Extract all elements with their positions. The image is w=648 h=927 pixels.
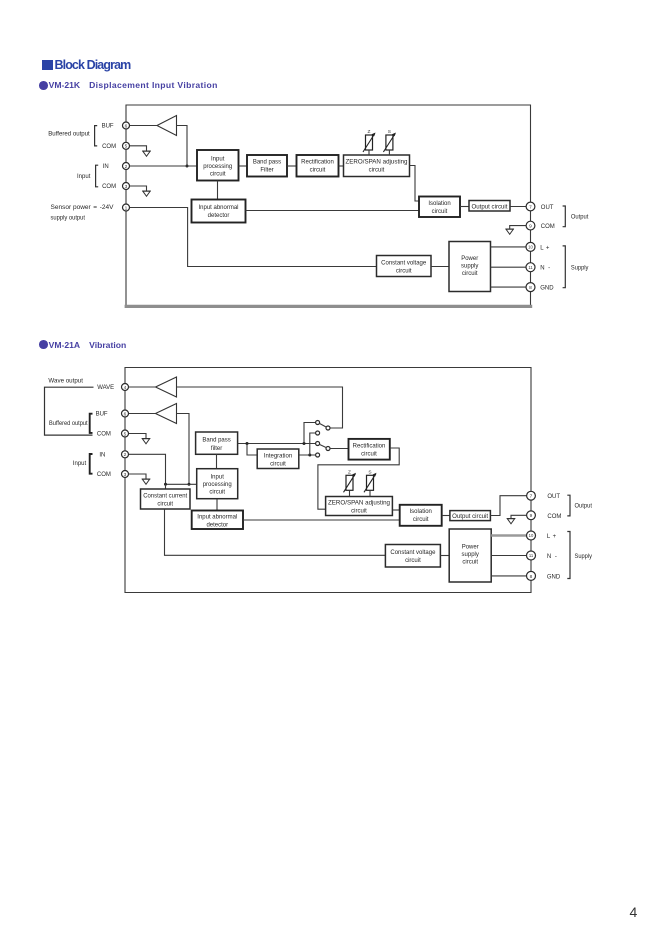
svg-text:ZERO/SPAN adjusting: ZERO/SPAN adjusting <box>328 501 390 507</box>
label N- <box>540 266 550 272</box>
box input abnormal detector <box>192 200 246 223</box>
svg-text:Z: Z <box>368 129 371 135</box>
potentiometer Z <box>363 129 376 155</box>
svg-text:9: 9 <box>530 513 533 519</box>
svg-text:Output circuit: Output circuit <box>472 204 508 210</box>
svg-text:WAVE: WAVE <box>97 385 114 391</box>
svg-text:Wave output: Wave output <box>48 379 83 385</box>
bracket buffered output <box>95 126 98 146</box>
wire op-amp U3 input from IN line <box>177 414 190 485</box>
svg-text:Input: Input <box>211 475 225 481</box>
label L+ <box>540 245 550 251</box>
svg-text:Input abnormal: Input abnormal <box>198 205 238 211</box>
wire power supply to terminal10 <box>491 246 531 248</box>
label Supply <box>571 266 589 272</box>
svg-text:COM: COM <box>97 472 111 478</box>
svg-text:Filter: Filter <box>260 168 273 174</box>
svg-text:L +: L + <box>547 534 557 540</box>
box isolation circuit (2) <box>400 505 442 526</box>
svg-text:Constant voltage: Constant voltage <box>381 260 427 266</box>
svg-text:11: 11 <box>528 265 533 270</box>
VM-21K enclosure bottom edge (thick gray) <box>125 305 533 308</box>
label OUT <box>541 205 554 211</box>
label GND <box>540 286 554 292</box>
box input abnormal detector (2) <box>192 511 243 530</box>
svg-text:GND: GND <box>547 574 561 580</box>
svg-text:10: 10 <box>528 245 533 250</box>
svg-text:Constant current: Constant current <box>143 494 187 500</box>
box constant voltage circuit <box>377 256 432 277</box>
svg-text:Supply: Supply <box>575 554 593 560</box>
label COM (pin5) <box>102 144 116 150</box>
bracket supply group <box>563 246 566 288</box>
svg-text:Rectification: Rectification <box>353 443 386 449</box>
svg-text:4: 4 <box>124 385 127 391</box>
svg-text:processing: processing <box>203 164 232 170</box>
svg-text:circuit: circuit <box>405 558 421 564</box>
terminal 10 (2) <box>527 531 536 540</box>
label COM (pin9, 2) <box>547 514 561 520</box>
svg-text:N -: N - <box>540 266 550 272</box>
box output circuit (2) <box>450 511 491 521</box>
svg-text:Buffered output: Buffered output <box>48 132 90 138</box>
svg-text:OUT: OUT <box>547 494 560 500</box>
label Output <box>571 214 589 220</box>
svg-text:processing: processing <box>203 482 232 488</box>
wire zero/span to isolation <box>410 166 420 202</box>
wire zero/span to isolation (2) <box>392 509 399 511</box>
junction to switch contact 1 <box>303 442 306 445</box>
svg-text:Input: Input <box>77 174 91 180</box>
svg-text:Z: Z <box>348 470 351 476</box>
ground symbol (pin3, 2) <box>142 479 151 484</box>
box input processing circuit <box>197 150 239 181</box>
box output circuit <box>469 201 510 212</box>
wire terminal9 to ground (2) <box>511 515 527 518</box>
terminal 3 <box>123 183 130 190</box>
label L+ (2) <box>547 534 557 540</box>
svg-text:circuit: circuit <box>351 508 367 514</box>
svg-text:8: 8 <box>530 574 533 580</box>
box constant current circuit <box>141 489 191 509</box>
potentiometer Z (2) <box>344 470 357 497</box>
svg-text:7: 7 <box>530 494 533 500</box>
subtitle VM-21A <box>39 340 126 350</box>
ground symbol (pin5, 2) <box>142 439 151 444</box>
wire op-amp U2 input from switch pole 1 <box>177 387 343 428</box>
box zero/span adjusting circuit (2) <box>326 497 393 516</box>
svg-text:1: 1 <box>125 205 128 211</box>
wire power supply to terminal11 <box>491 266 531 268</box>
subtitle VM-21K <box>39 80 218 90</box>
svg-text:COM: COM <box>102 184 116 190</box>
wire band pass filter output to switch contact 3 <box>238 443 316 445</box>
svg-text:S: S <box>388 129 391 135</box>
svg-text:circuit: circuit <box>413 517 429 523</box>
svg-text:BUF: BUF <box>102 124 114 130</box>
label COM (pin3, 2) <box>97 472 111 478</box>
svg-text:3: 3 <box>124 472 127 478</box>
label BUF <box>102 124 114 130</box>
label Sensor power supply output <box>51 205 114 221</box>
svg-text:IN: IN <box>103 164 109 170</box>
wire to switch contact 2 <box>310 433 316 455</box>
svg-text:Isolation: Isolation <box>428 201 450 207</box>
switch pole 2 <box>326 447 330 451</box>
svg-text:detector: detector <box>206 522 228 528</box>
bracket buffered output (2) <box>90 414 93 433</box>
svg-text:COM: COM <box>102 144 116 150</box>
wire power supply to terminal8 <box>491 286 531 288</box>
svg-text:ZERO/SPAN adjusting: ZERO/SPAN adjusting <box>346 160 408 166</box>
potentiometer S (2) <box>364 470 377 497</box>
VM-21K enclosure frame <box>126 105 531 306</box>
wire constant voltage to power supply (2) <box>440 555 449 557</box>
wire terminal3 to ground (2) <box>128 474 146 479</box>
svg-text:circuit: circuit <box>209 490 225 496</box>
svg-text:10: 10 <box>529 533 534 538</box>
svg-text:Power: Power <box>462 545 479 551</box>
terminal 7 (2) <box>527 491 536 500</box>
wire switch pole 2 to rectification <box>330 448 349 450</box>
box band pass filter <box>247 155 287 177</box>
wire detector to isolation (2) <box>243 519 400 521</box>
ground symbol (pin3) <box>142 191 151 196</box>
terminal 8 (2) <box>527 571 536 580</box>
label N- (2) <box>547 554 557 560</box>
wire rectification to zero/span <box>339 165 344 167</box>
svg-text:Buffered output: Buffered output <box>49 421 88 427</box>
wire isolation to output circuit (2) <box>442 515 450 517</box>
label COM (pin3) <box>102 184 116 190</box>
wire terminal2 (IN) to input processing <box>129 165 197 167</box>
svg-text:Output: Output <box>575 504 593 510</box>
terminal 5 <box>123 142 130 149</box>
label Buffered output <box>48 132 90 138</box>
wire op-amp input from IN line <box>177 126 188 167</box>
wave output pointer lines <box>45 387 94 435</box>
page number <box>630 904 638 920</box>
svg-text:circuit: circuit <box>157 502 173 508</box>
svg-text:supply output: supply output <box>51 215 86 221</box>
label Wave output <box>48 379 83 385</box>
label GND (2) <box>547 574 561 580</box>
svg-text:6: 6 <box>125 123 128 129</box>
label Input (2) <box>73 461 87 467</box>
op-amp buffer U1 <box>157 116 177 136</box>
svg-text:2: 2 <box>124 452 127 458</box>
switch contact 1 <box>316 421 320 425</box>
svg-text:Integration: Integration <box>264 453 292 459</box>
label Output (2) <box>575 504 593 510</box>
terminal 2 <box>123 163 130 170</box>
wire terminal6 to op-amp <box>129 125 157 127</box>
svg-text:Input: Input <box>211 157 225 163</box>
ground symbol (pin9, 2) <box>507 519 516 524</box>
wire constant current to constant voltage rail <box>165 509 386 555</box>
svg-text:circuit: circuit <box>432 209 448 215</box>
svg-text:circuit: circuit <box>270 461 286 467</box>
wire detector to isolation circuit <box>246 210 420 212</box>
svg-text:supply: supply <box>461 264 478 270</box>
svg-text:circuit: circuit <box>396 268 412 274</box>
label IN (2) <box>99 453 105 459</box>
svg-text:Power: Power <box>461 256 478 262</box>
wire power supply to terminal11 (2) <box>491 555 531 557</box>
switch lever 2 <box>319 444 326 447</box>
box isolation circuit <box>419 197 460 218</box>
svg-text:7: 7 <box>529 204 532 210</box>
wire terminal1 (-24V) to constant voltage circuit <box>129 208 376 267</box>
wire constant voltage to power supply <box>431 266 449 268</box>
terminal 9 <box>526 221 535 230</box>
wire junction to integration circuit <box>247 444 257 456</box>
svg-text:circuit: circuit <box>369 168 385 174</box>
box rectification circuit <box>297 155 339 177</box>
box power supply circuit (2) <box>449 529 491 582</box>
terminal 11 <box>526 263 535 272</box>
terminal 8 <box>526 283 535 292</box>
junction band pass output <box>246 442 249 445</box>
bracket input <box>96 165 99 187</box>
terminal 5 (2) <box>122 430 129 437</box>
svg-text:Supply: Supply <box>571 266 589 272</box>
svg-text:Isolation: Isolation <box>410 509 432 515</box>
wire junction to constant current circuit <box>165 484 167 489</box>
bracket output group (2) <box>567 495 570 516</box>
switch contact 4 <box>316 453 320 457</box>
wire terminal6 to op-amp U3 <box>128 413 155 415</box>
svg-text:OUT: OUT <box>541 205 554 211</box>
svg-text:Constant voltage: Constant voltage <box>390 550 436 556</box>
label IN <box>103 164 109 170</box>
svg-text:COM: COM <box>97 432 111 438</box>
wire to switch contact 1 <box>304 423 316 444</box>
junction on IN feed line <box>188 483 191 486</box>
svg-text:6: 6 <box>124 411 127 417</box>
svg-text:IN: IN <box>99 453 105 459</box>
label Input <box>77 174 91 180</box>
wire terminal9 to ground <box>510 226 527 229</box>
VM-21A enclosure frame <box>125 368 531 593</box>
svg-text:2: 2 <box>125 164 128 170</box>
svg-text:COM: COM <box>547 514 561 520</box>
wire rectification to zero/span (2) <box>318 448 399 509</box>
svg-text:9: 9 <box>529 224 532 230</box>
svg-text:circuit: circuit <box>462 560 478 566</box>
bracket input (2) <box>90 454 93 474</box>
box constant voltage circuit (2) <box>385 545 440 568</box>
svg-text:N -: N - <box>547 554 557 560</box>
junction IN to constant current <box>164 483 167 486</box>
svg-text:COM: COM <box>541 224 555 230</box>
svg-text:11: 11 <box>529 553 534 558</box>
terminal 10 <box>526 242 535 251</box>
heading: Block Diagram <box>42 58 130 72</box>
svg-text:GND: GND <box>540 286 554 292</box>
label OUT (2) <box>547 494 560 500</box>
svg-text:S: S <box>368 470 371 476</box>
svg-text:Band pass: Band pass <box>253 160 281 166</box>
box rectification circuit (2) <box>349 439 390 460</box>
svg-text:circuit: circuit <box>361 451 377 457</box>
svg-text:circuit: circuit <box>462 271 478 277</box>
svg-text:Band pass: Band pass <box>202 437 230 443</box>
switch contact 3 <box>316 442 320 446</box>
wire terminal3 to ground <box>129 186 146 191</box>
box power supply circuit <box>449 242 491 292</box>
terminal 6 (2) <box>122 410 129 417</box>
ground symbol (pin5) <box>142 151 151 156</box>
wire terminal4 to op-amp U2 <box>128 386 155 388</box>
svg-text:3: 3 <box>125 184 128 190</box>
terminal 1 <box>123 204 130 211</box>
wire power supply to terminal10 (thick) <box>491 534 527 537</box>
svg-text:Output: Output <box>571 214 589 220</box>
junction integration output <box>308 454 311 457</box>
svg-text:BUF: BUF <box>96 412 108 418</box>
wire input processing to band pass filter <box>239 165 248 167</box>
potentiometer S <box>383 129 396 155</box>
label COM (pin9) <box>541 224 555 230</box>
bracket supply group (2) <box>567 532 570 579</box>
svg-text:filter: filter <box>211 446 222 452</box>
wire output circuit to terminal7 <box>510 206 531 208</box>
terminal 9 (2) <box>527 511 536 520</box>
svg-text:supply: supply <box>462 552 479 558</box>
label Supply (2) <box>575 554 593 560</box>
label BUF (2) <box>96 412 108 418</box>
box band pass filter (2) <box>196 432 238 454</box>
wire power supply to terminal8 (2) <box>491 575 531 577</box>
label Buffered output (2) <box>49 421 88 427</box>
terminal 3 (2) <box>122 471 129 478</box>
svg-text:Sensor power = -24V: Sensor power = -24V <box>51 205 114 211</box>
svg-text:Input abnormal: Input abnormal <box>197 515 237 521</box>
wire integration output to switch contact 4 <box>299 454 316 456</box>
terminal 11 (2) <box>527 551 536 560</box>
terminal 6 <box>123 122 130 129</box>
terminal 4 <box>122 384 129 391</box>
label COM (pin5, 2) <box>97 432 111 438</box>
wire terminal5 to ground (2) <box>128 434 146 439</box>
terminal 2 (2) <box>122 451 129 458</box>
svg-text:Rectification: Rectification <box>301 160 334 166</box>
box integration circuit <box>257 449 299 469</box>
svg-text:5: 5 <box>125 144 128 150</box>
wire band pass to input processing (2) <box>216 454 218 468</box>
wire terminal2 (IN) to input processing (2) <box>128 454 196 484</box>
wire output circuit to terminal7 (2) <box>490 496 531 516</box>
svg-text:circuit: circuit <box>310 168 326 174</box>
wire isolation to output circuit <box>460 206 469 208</box>
wire terminal5 to ground <box>129 146 146 151</box>
svg-text:detector: detector <box>208 213 230 219</box>
switch pole 1 <box>326 426 330 430</box>
svg-text:Output circuit: Output circuit <box>452 514 488 520</box>
wire input processing to detector <box>217 181 219 200</box>
junction on IN line <box>186 165 189 168</box>
op-amp buffer U3 <box>156 404 177 424</box>
ground symbol (pin9) <box>505 229 514 234</box>
svg-text:8: 8 <box>529 285 532 291</box>
wire band pass to rectification <box>287 165 297 167</box>
label WAVE <box>97 385 114 391</box>
svg-text:L +: L + <box>540 245 550 251</box>
box input processing circuit (2) <box>197 469 238 499</box>
switch contact 2 <box>316 431 320 435</box>
svg-text:Input: Input <box>73 461 87 467</box>
switch lever 1 <box>319 423 326 427</box>
terminal 7 <box>526 202 535 211</box>
bracket output group <box>563 206 566 227</box>
op-amp wave buffer U2 <box>156 377 177 397</box>
box zero/span adjusting circuit <box>344 155 410 177</box>
wire input processing to detector (2) <box>216 499 218 511</box>
svg-text:5: 5 <box>124 431 127 437</box>
svg-text:circuit: circuit <box>210 172 226 178</box>
